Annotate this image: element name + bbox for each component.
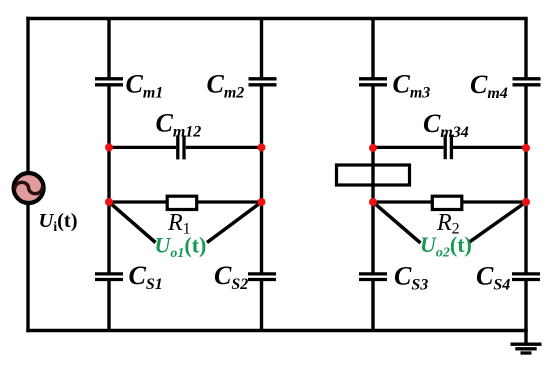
resistor R1 (167, 196, 197, 209)
capacitor C_m34 plates (444, 135, 447, 159)
node B2 (258, 198, 266, 206)
node A2 (258, 143, 266, 151)
svg-text:CS3: CS3 (394, 262, 428, 294)
wire: branch 2 lower (107, 280, 110, 331)
wire: bottom bus (28, 329, 526, 332)
wire: branch 5 middle (524, 85, 527, 274)
resistor R2 (432, 196, 462, 209)
capacitor C_m2 plates (249, 77, 277, 80)
capacitor C_S2 plates (248, 272, 276, 275)
ground stem (524, 331, 527, 345)
wire: branch 3 lower (260, 280, 263, 331)
node B1 (105, 198, 113, 206)
capacitor C_m3 plates (359, 77, 387, 80)
wire: left branch upper segment (26, 19, 29, 174)
probe line left from node B3 (373, 202, 421, 243)
probe line right to node B2 (207, 202, 262, 243)
wire: top bus (28, 17, 526, 20)
svg-text:Ui(t): Ui(t) (39, 210, 78, 234)
capacitor C_m12 plates (176, 135, 179, 159)
capacitor C_S1 plates (95, 272, 123, 275)
wire: branch 4 middle (371, 85, 374, 274)
unlabeled device box on branch 4 (337, 165, 410, 185)
AC source sine wave (15, 182, 43, 193)
wire: coupling row right (node link) (373, 146, 443, 149)
wire: branch 4 (x=373) upper (371, 19, 374, 79)
svg-text:Uo1(t): Uo1(t) (155, 233, 207, 262)
wire: branch 3 middle (260, 85, 263, 274)
capacitor C_S4 plates (512, 272, 540, 275)
wire: coupling row left (node link) (109, 146, 176, 149)
probe line left from node B1 (109, 202, 156, 243)
wire: output row right (373, 200, 526, 203)
wire: branch 3 (x=261.5) upper (260, 19, 263, 79)
ground bar 2 (515, 347, 536, 350)
wire: branch 2 middle (107, 85, 110, 274)
svg-text:CS4: CS4 (476, 262, 510, 294)
wire: branch 5 (x=526) upper (524, 19, 527, 79)
svg-text:CS1: CS1 (129, 261, 163, 293)
ground bar 1 (511, 343, 542, 346)
capacitor C_m4 plates (513, 77, 541, 80)
svg-text:Cm34: Cm34 (423, 109, 469, 141)
svg-text:CS2: CS2 (214, 261, 248, 293)
capacitor C_S3 plates (359, 272, 387, 275)
capacitor C_m1 plates (95, 77, 123, 80)
node A3 (369, 144, 377, 152)
ground bar 3 (521, 351, 532, 354)
node B4 (522, 198, 530, 206)
node A1 (105, 143, 113, 151)
svg-text:Uo2(t): Uo2(t) (420, 232, 472, 261)
AC source U_i circle (14, 173, 44, 203)
wire: branch 5 lower (524, 280, 527, 331)
wire: branch 4 lower (371, 280, 374, 331)
wire: left branch lower segment (26, 204, 29, 331)
svg-text:Cm4: Cm4 (470, 70, 508, 102)
node A4 (522, 144, 530, 152)
wire: branch 2 (x=109) upper (107, 19, 110, 79)
svg-text:Cm12: Cm12 (156, 109, 202, 141)
node B3 (369, 198, 377, 206)
probe line right from node B4 (469, 202, 526, 242)
svg-text:Cm3: Cm3 (393, 70, 431, 102)
wire: output row left (109, 200, 262, 203)
svg-text:Cm2: Cm2 (207, 70, 245, 102)
svg-text:Cm1: Cm1 (126, 70, 164, 102)
